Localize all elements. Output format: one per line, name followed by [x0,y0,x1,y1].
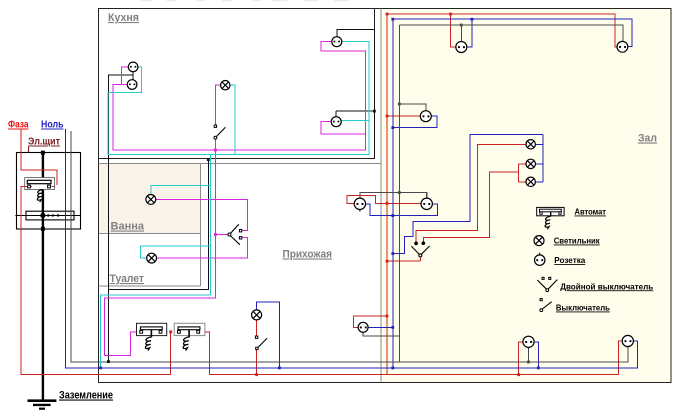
svg-text:Ванна: Ванна [111,221,145,233]
svg-text:Выключатель: Выключатель [556,303,610,313]
svg-text:Прихожая: Прихожая [283,249,333,261]
svg-text:Автомат: Автомат [575,207,607,217]
svg-text:Светильник: Светильник [554,236,601,246]
svg-text:Двойной выключатель: Двойной выключатель [560,281,653,291]
svg-text:Заземление: Заземление [59,390,113,402]
svg-text:Зал: Зал [638,133,657,145]
svg-text:Ноль: Ноль [41,120,64,131]
svg-text:Фаза: Фаза [8,120,29,131]
svg-text:Розетка: Розетка [554,255,585,265]
svg-text:Туалет: Туалет [110,273,145,285]
svg-text:Эл.щит: Эл.щит [28,137,60,148]
svg-text:Кухня: Кухня [108,12,139,24]
